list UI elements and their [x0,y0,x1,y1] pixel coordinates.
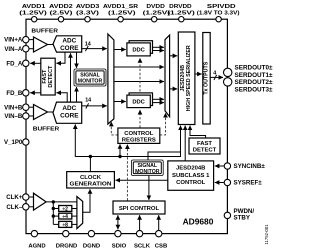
svg-text:VIN+A: VIN+A [4,37,23,44]
svg-text:VIN–A: VIN–A [4,46,23,53]
svg-text:CONTROL: CONTROL [124,131,154,137]
svg-text:(1.8V TO 3.3V): (1.8V TO 3.3V) [197,11,240,17]
svg-text:REGISTERS: REGISTERS [122,138,156,144]
svg-text:BUFFER: BUFFER [33,127,60,133]
svg-text:CORE: CORE [60,113,79,120]
svg-text:JESD204B: JESD204B [176,165,205,171]
svg-text:DDC: DDC [132,100,145,106]
svg-text:CONTROL: CONTROL [176,180,206,186]
svg-text:DETECT: DETECT [193,148,217,154]
svg-text:AVDD3: AVDD3 [76,4,100,10]
svg-text:(1.25V): (1.25V) [108,11,136,17]
svg-text:SERDOUT0±: SERDOUT0± [235,65,274,72]
svg-text:AD9680: AD9680 [183,216,214,226]
svg-text:MONITOR: MONITOR [135,169,160,175]
svg-text:CLK–: CLK– [6,204,23,211]
svg-text:ADC: ADC [62,38,76,45]
svg-text:(3.3V): (3.3V) [76,11,99,17]
svg-text:AGND: AGND [28,243,45,249]
svg-text:DDC: DDC [132,47,145,53]
svg-text:4: 4 [213,70,216,76]
svg-text:DVDD: DVDD [146,4,165,10]
svg-text:(1.25V): (1.25V) [19,11,47,17]
svg-text:CORE: CORE [60,45,79,52]
svg-text:STBY: STBY [234,215,251,222]
svg-text:V_1P0: V_1P0 [4,139,23,146]
svg-text:ADC: ADC [62,105,76,112]
svg-text:Tx OUTPUTS: Tx OUTPUTS [204,61,210,94]
svg-text:FD_A: FD_A [6,60,23,67]
svg-text:SDIO: SDIO [112,243,127,249]
svg-text:DRGND: DRGND [56,243,78,249]
svg-text:÷8: ÷8 [62,222,68,228]
svg-text:AVDD1: AVDD1 [22,4,46,10]
svg-text:CSB: CSB [155,243,167,249]
svg-text:MONITOR: MONITOR [78,78,103,84]
svg-text:SUBCLASS 1: SUBCLASS 1 [172,173,210,179]
svg-text:11752-001: 11752-001 [264,224,269,245]
svg-text:CLOCK: CLOCK [80,175,102,181]
svg-text:GENERATION: GENERATION [70,182,112,188]
svg-text:AVDD2: AVDD2 [49,4,73,10]
svg-text:÷4: ÷4 [62,214,68,220]
svg-text:SERDOUT2±: SERDOUT2± [235,79,274,86]
svg-text:DGND: DGND [83,243,100,249]
svg-text:HIGH SPEED SERIALIZER: HIGH SPEED SERIALIZER [186,45,192,111]
svg-text:SYSREF±: SYSREF± [234,180,263,187]
svg-text:÷2: ÷2 [62,207,68,213]
svg-text:SPIVDD: SPIVDD [207,4,236,10]
svg-text:AVDD1_SR: AVDD1_SR [103,4,138,10]
svg-text:DRVDD: DRVDD [169,4,192,10]
svg-text:FAST: FAST [197,141,212,147]
svg-text:SERDOUT1±: SERDOUT1± [235,72,274,79]
svg-text:(1.25V): (1.25V) [167,11,195,17]
svg-text:14: 14 [85,98,91,104]
svg-text:SPI CONTROL: SPI CONTROL [119,206,160,212]
svg-text:VIN–B: VIN–B [4,113,23,120]
svg-text:SYNCINB±: SYNCINB± [234,163,266,170]
svg-text:CLK+: CLK+ [6,194,23,201]
svg-text:SCLK: SCLK [134,243,151,249]
svg-text:SERDOUT3±: SERDOUT3± [235,86,274,93]
svg-text:(2.5V): (2.5V) [50,11,73,17]
svg-text:BUFFER: BUFFER [31,28,58,34]
svg-text:VIN+B: VIN+B [4,104,23,111]
svg-text:JESD204B: JESD204B [180,65,186,92]
svg-text:FD_B: FD_B [6,90,23,97]
svg-text:DETECT: DETECT [48,65,54,88]
svg-text:14: 14 [85,41,91,47]
